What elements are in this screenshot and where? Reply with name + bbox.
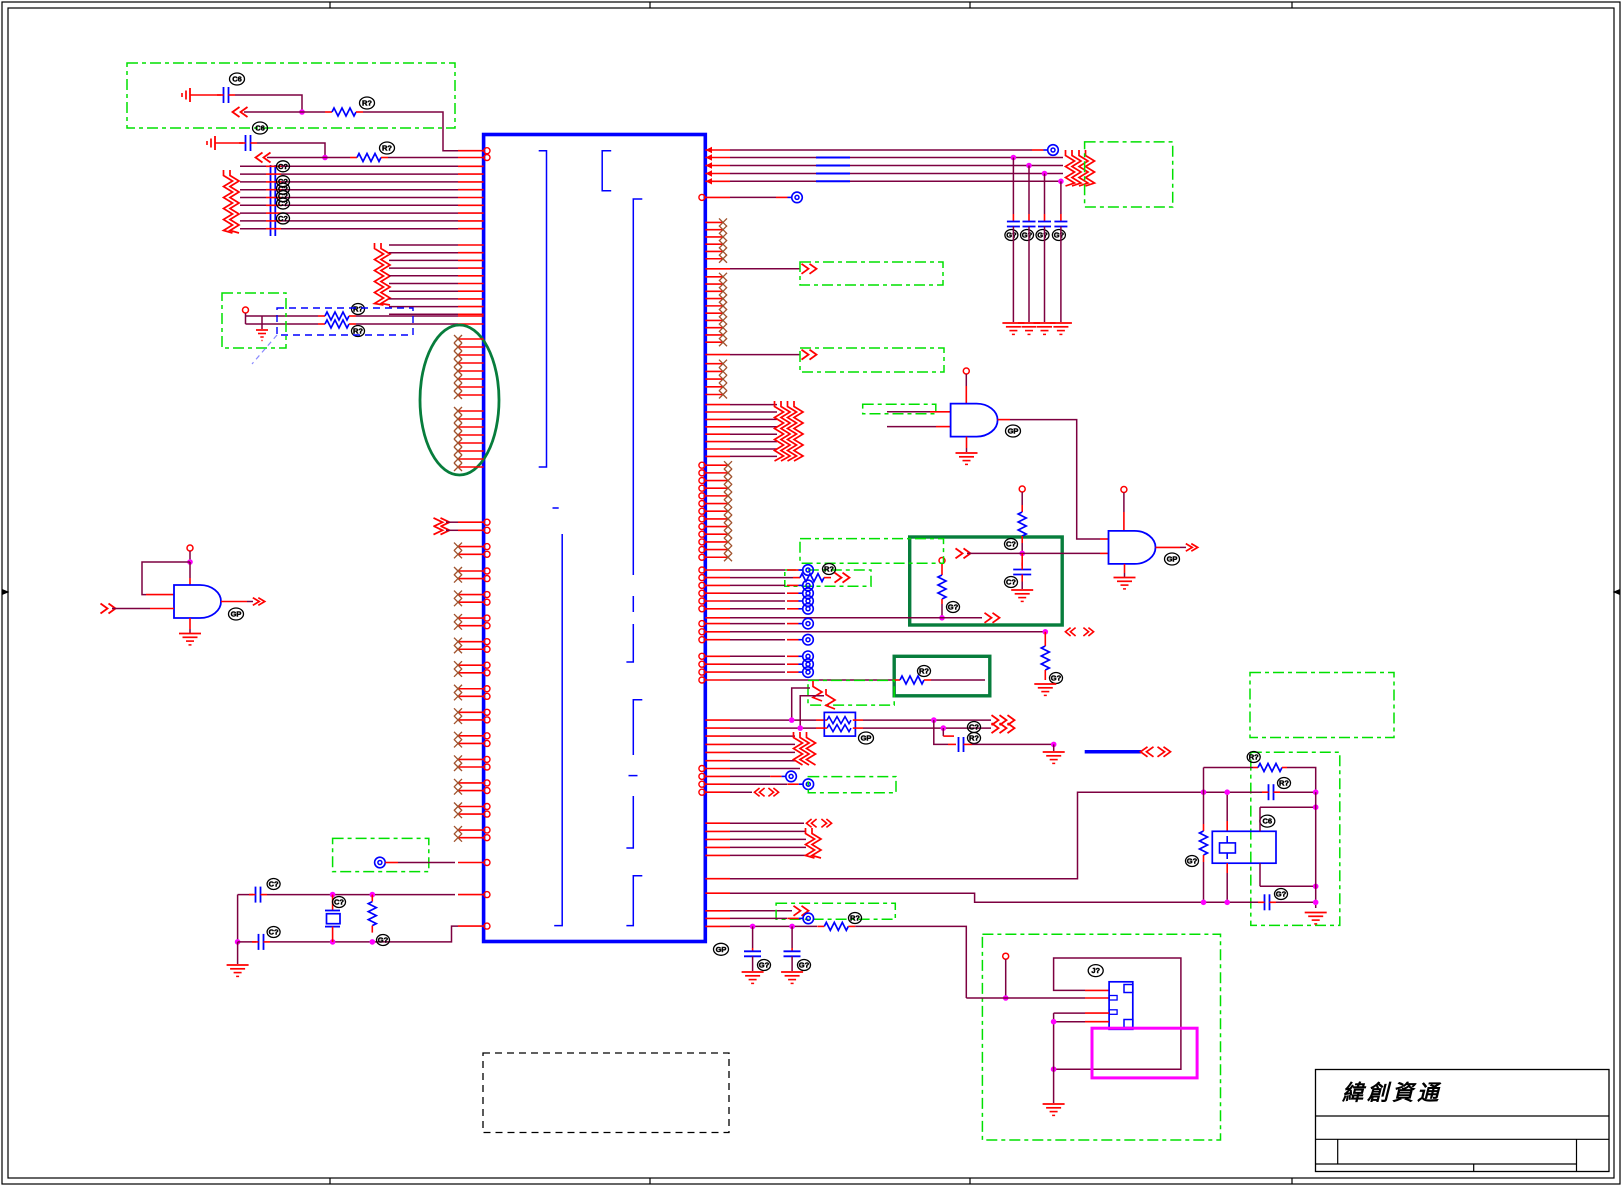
no-connect terminator — [787, 569, 799, 571]
key box (dark green) — [910, 537, 1062, 625]
label G? — [1005, 230, 1018, 241]
pin stub — [458, 578, 484, 580]
ground — [1053, 744, 1055, 751]
pin stub — [705, 290, 723, 292]
bus exit arrow — [1186, 544, 1192, 552]
RTC box (green dashed) — [1251, 752, 1340, 925]
pin 1 — [458, 150, 484, 152]
wire — [1054, 1012, 1085, 1014]
svg-text:GP: GP — [716, 945, 727, 954]
IC U1 internal bracket 4 — [553, 507, 559, 509]
svg-text:C?: C? — [269, 880, 279, 889]
label G? — [758, 960, 771, 971]
bus arrows — [1065, 628, 1070, 636]
pin — [705, 655, 730, 657]
pin — [705, 760, 730, 762]
op-amp U2A (AND gate) — [174, 585, 221, 618]
bus exit arrow — [802, 350, 809, 360]
svg-text:R?: R? — [353, 327, 363, 336]
pin stub — [458, 466, 484, 468]
wire — [1204, 767, 1254, 769]
wire — [730, 631, 1045, 633]
wire — [1012, 227, 1014, 323]
wire — [730, 165, 1063, 167]
wire — [240, 220, 266, 222]
pin stub — [705, 298, 723, 300]
wire — [730, 751, 795, 753]
pin — [705, 663, 730, 665]
svg-text:R?: R? — [362, 99, 372, 108]
bus entry arrow — [256, 153, 263, 163]
wire — [235, 95, 302, 112]
bus arrows — [1141, 747, 1148, 757]
pin stub — [458, 394, 484, 396]
IC U1 body — [484, 135, 706, 942]
wire — [998, 419, 1010, 421]
wire — [1204, 791, 1263, 793]
pin stub — [458, 426, 484, 428]
pin — [705, 180, 730, 182]
wire — [238, 941, 256, 943]
pin arrowhead — [706, 147, 713, 153]
wire — [1260, 806, 1316, 808]
label C? — [277, 198, 290, 209]
label C7 — [267, 879, 280, 890]
pin — [705, 791, 730, 793]
pin — [458, 252, 484, 254]
no-connect terminator — [787, 592, 799, 594]
label G? — [1186, 856, 1199, 867]
capacitor C11 — [791, 926, 793, 948]
pin stub — [458, 837, 484, 839]
pin stub — [705, 283, 723, 285]
wire — [941, 604, 943, 618]
pin — [705, 917, 730, 919]
svg-text:G?: G? — [799, 961, 810, 970]
no-connect terminator — [787, 608, 799, 610]
pin — [458, 283, 484, 285]
no-connect terminator — [375, 857, 386, 868]
wire — [389, 244, 458, 246]
pin — [705, 433, 730, 435]
wire — [389, 259, 458, 261]
wire — [1053, 1069, 1055, 1103]
pin stub — [458, 806, 484, 808]
label R12 — [849, 913, 862, 924]
bus marker (blue) — [816, 157, 850, 159]
IC U1 internal bracket 5 — [633, 700, 642, 755]
pin — [705, 727, 730, 729]
svg-text:GP: GP — [231, 610, 242, 619]
pin — [705, 448, 730, 450]
pin — [458, 925, 484, 927]
resistor R13 — [1253, 767, 1258, 769]
wire — [730, 426, 777, 428]
pin — [458, 220, 484, 222]
wire — [240, 204, 266, 206]
pin stub — [458, 442, 484, 444]
resistor R8 — [793, 577, 800, 579]
svg-text:R?: R? — [1279, 779, 1289, 788]
no-connect terminator — [787, 655, 799, 657]
wire — [1280, 791, 1316, 793]
label R4 — [352, 326, 365, 337]
label Y1 — [333, 897, 346, 908]
wire — [1021, 492, 1023, 505]
pin stub — [705, 526, 728, 528]
wire — [189, 551, 191, 562]
power pin — [939, 558, 945, 564]
wire — [389, 313, 458, 315]
resistor R10 — [893, 679, 900, 681]
wire — [1044, 227, 1046, 323]
capacitor C13 — [1264, 894, 1266, 910]
capacitor C6b — [215, 142, 243, 144]
wire — [965, 374, 967, 386]
wire — [267, 157, 325, 159]
wire — [855, 926, 966, 998]
bus marker (blue) — [816, 173, 850, 175]
bus ripper column — [1066, 150, 1075, 186]
resistor R4 — [318, 323, 325, 325]
label G? — [798, 960, 811, 971]
wire — [363, 112, 458, 151]
ground (small) — [256, 329, 268, 331]
wire — [853, 727, 863, 729]
wire — [1028, 166, 1030, 215]
pin stub — [705, 327, 723, 329]
label C13 — [1275, 889, 1288, 900]
label GP — [1006, 425, 1021, 437]
wire — [1053, 1013, 1055, 1069]
pin stub — [458, 719, 484, 721]
wire — [1012, 158, 1014, 215]
pin — [458, 290, 484, 292]
pin — [705, 775, 730, 777]
IC U1 internal bracket 6 — [629, 775, 638, 777]
bus marker (blue) — [816, 165, 850, 167]
pin — [705, 735, 730, 737]
pin arrowhead — [706, 162, 713, 168]
wire — [730, 617, 942, 619]
no-connect terminator — [787, 600, 799, 602]
wire — [1005, 959, 1007, 998]
capacitor C8 — [258, 934, 260, 950]
op-amp U3 (AND gate) — [951, 404, 998, 437]
green dashed box — [776, 903, 895, 919]
wire — [1021, 543, 1023, 553]
no-connect terminator — [787, 917, 799, 919]
wire — [730, 196, 776, 198]
wire — [356, 315, 458, 317]
op-amp U4 (AND gate) — [1109, 531, 1156, 564]
wire — [1021, 582, 1023, 590]
wire — [730, 433, 777, 435]
label R3 — [352, 304, 365, 315]
capacitor — [1007, 221, 1020, 223]
wire — [730, 792, 1204, 879]
dark green box 2 — [894, 656, 990, 696]
wire — [1287, 768, 1316, 793]
pin stub — [705, 510, 728, 512]
pin stub — [458, 553, 484, 555]
pin — [705, 846, 730, 848]
svg-text:C?: C? — [334, 898, 344, 907]
svg-text:G?: G? — [378, 936, 389, 945]
pin — [705, 411, 730, 413]
power pin — [1003, 953, 1009, 959]
pin — [705, 577, 730, 579]
pin — [705, 196, 730, 198]
green dashed box — [800, 262, 943, 285]
svg-text:G?: G? — [1037, 231, 1048, 240]
svg-text:G?: G? — [1187, 857, 1198, 866]
pin stub — [705, 258, 723, 260]
pin stub — [458, 688, 484, 690]
IC U1 internal bracket 7 — [626, 876, 642, 926]
leader line (blue dashed) — [252, 335, 277, 364]
svg-text:R?: R? — [382, 144, 392, 153]
pin — [705, 157, 730, 159]
pin — [458, 181, 484, 183]
wire — [730, 671, 785, 673]
bus ripper column — [375, 243, 384, 305]
pin stub — [458, 378, 484, 380]
svg-text:J?: J? — [1091, 966, 1100, 975]
pin stub — [705, 386, 723, 388]
label C9 — [968, 722, 981, 733]
pin stub — [458, 782, 484, 784]
power pin — [1121, 487, 1127, 493]
power net box (green dashed) — [127, 63, 455, 128]
bus ripper column — [826, 689, 835, 709]
wire — [887, 426, 936, 428]
pin — [458, 204, 484, 206]
wire — [730, 791, 752, 793]
pin — [705, 165, 730, 167]
capacitor — [1054, 221, 1067, 223]
bus exit arrow — [835, 573, 842, 583]
battery box (magenta) — [1092, 1028, 1197, 1078]
bus ripper column — [794, 732, 803, 765]
wire — [1044, 174, 1046, 215]
wire — [238, 894, 253, 896]
wire — [730, 441, 777, 443]
resistor R1 — [325, 111, 332, 113]
pin stub — [458, 601, 484, 603]
pin arrowhead — [706, 178, 713, 184]
wire — [730, 608, 785, 610]
pin stub — [458, 370, 484, 372]
wire — [730, 893, 1204, 902]
pin stub — [705, 495, 728, 497]
wire — [1276, 901, 1316, 903]
pin — [705, 354, 730, 356]
pin stub — [705, 334, 723, 336]
wire — [730, 418, 777, 420]
wire — [240, 189, 266, 191]
bus exit arrow — [253, 598, 259, 606]
pin — [705, 783, 730, 785]
bus entry arrow — [233, 107, 240, 117]
pin stub — [458, 711, 484, 713]
pin stub — [458, 570, 484, 572]
pin arrowhead — [706, 154, 713, 160]
label C6b — [253, 122, 268, 134]
wire — [1203, 768, 1205, 825]
wire — [389, 275, 458, 277]
wire — [730, 775, 770, 777]
pin stub — [705, 250, 723, 252]
pin — [705, 441, 730, 443]
label C?b — [1005, 577, 1018, 588]
label C6a — [230, 73, 245, 85]
pin stub — [705, 229, 723, 231]
pin stub — [458, 813, 484, 815]
ground — [781, 971, 803, 973]
wire — [730, 455, 777, 457]
wire — [730, 577, 793, 579]
pin stub — [705, 319, 723, 321]
svg-text:R?: R? — [1249, 753, 1259, 762]
spare box (green dashed) — [1250, 673, 1394, 738]
label R13 — [1247, 752, 1260, 763]
pin stub — [458, 362, 484, 364]
wire — [389, 306, 458, 308]
wire — [245, 313, 247, 324]
pin stub — [705, 236, 723, 238]
label GP — [859, 732, 874, 744]
pin — [705, 679, 730, 681]
pin — [705, 838, 730, 840]
label C12 — [1278, 778, 1291, 789]
pin stub — [705, 556, 728, 558]
IC U1 internal bracket 3 — [633, 199, 642, 575]
pin stub — [458, 664, 484, 666]
wire — [730, 768, 800, 770]
ground — [189, 618, 191, 629]
ground — [742, 971, 764, 973]
bus wire (blue) — [1085, 750, 1141, 754]
green dashed box — [800, 348, 944, 372]
pin stub — [458, 641, 484, 643]
wire — [240, 228, 266, 230]
pin stub — [705, 533, 728, 535]
svg-text:R?: R? — [353, 305, 363, 314]
capacitor — [1023, 221, 1036, 223]
wire — [730, 180, 1063, 182]
pin stub — [458, 829, 484, 831]
wire — [240, 181, 266, 183]
pin — [458, 313, 484, 315]
pin arrowhead — [706, 170, 713, 176]
pin — [705, 854, 730, 856]
wire — [730, 600, 785, 602]
wire — [112, 608, 150, 610]
wire — [730, 917, 787, 919]
no-connect terminator — [787, 671, 799, 673]
pin — [705, 671, 730, 673]
label C6 — [1260, 815, 1275, 827]
svg-text:C?: C? — [278, 162, 288, 171]
wire — [142, 562, 190, 595]
svg-text:R?: R? — [919, 667, 929, 676]
bus exit arrow — [992, 715, 999, 725]
pin — [705, 743, 730, 745]
pin — [705, 617, 730, 619]
svg-text:G?: G? — [1006, 231, 1017, 240]
wire — [389, 267, 458, 269]
wire — [221, 601, 247, 603]
pin — [705, 910, 730, 912]
highlight ellipse — [420, 325, 499, 475]
pin stub — [705, 363, 723, 365]
pin stub — [705, 541, 728, 543]
wire — [730, 838, 806, 840]
power pin — [1019, 486, 1025, 492]
svg-text:緯創資通: 緯創資通 — [1341, 1081, 1442, 1105]
no-connect terminator — [787, 623, 799, 625]
wire — [730, 925, 817, 927]
label C8 — [267, 927, 280, 938]
svg-text:R?: R? — [850, 914, 860, 923]
wire — [237, 895, 239, 942]
pin — [705, 925, 730, 927]
svg-text:G?: G? — [1022, 231, 1033, 240]
series caps bus bars — [270, 165, 272, 236]
wire — [730, 623, 785, 625]
svg-text:C?: C? — [969, 723, 979, 732]
bus exit arrow — [802, 264, 809, 274]
wire — [1315, 792, 1317, 908]
pin — [705, 404, 730, 406]
pin — [705, 878, 730, 880]
pin — [705, 639, 730, 641]
wire — [730, 639, 785, 641]
wire — [730, 719, 816, 721]
svg-text:C?: C? — [278, 214, 288, 223]
pin — [458, 244, 484, 246]
wire — [389, 298, 458, 300]
label C?a — [1005, 539, 1018, 550]
label C? — [277, 191, 290, 202]
pin stub — [705, 378, 723, 380]
wire — [1260, 885, 1316, 887]
crystal Y2 — [1226, 792, 1228, 821]
label G? — [1021, 230, 1034, 241]
resistor pack RP1 — [824, 712, 855, 736]
label C? — [277, 183, 290, 194]
svg-text:C6: C6 — [255, 124, 265, 133]
pin — [705, 608, 730, 610]
pin 2 — [458, 157, 484, 159]
wire — [730, 727, 816, 729]
wire — [730, 735, 795, 737]
wire — [270, 926, 458, 942]
green dashed box (top right) — [1085, 142, 1173, 207]
capacitor C7 — [255, 887, 257, 903]
pin stub — [458, 758, 484, 760]
pin stub — [458, 418, 484, 420]
IC U1 internal bracket 1 — [539, 151, 547, 467]
title block — [1316, 1070, 1610, 1172]
capacitor C9 — [948, 743, 956, 745]
wire — [967, 552, 1100, 554]
label GP — [1165, 553, 1180, 565]
pin — [458, 165, 484, 167]
label G? — [377, 935, 390, 946]
resistor R5 (vertical) — [371, 895, 373, 902]
